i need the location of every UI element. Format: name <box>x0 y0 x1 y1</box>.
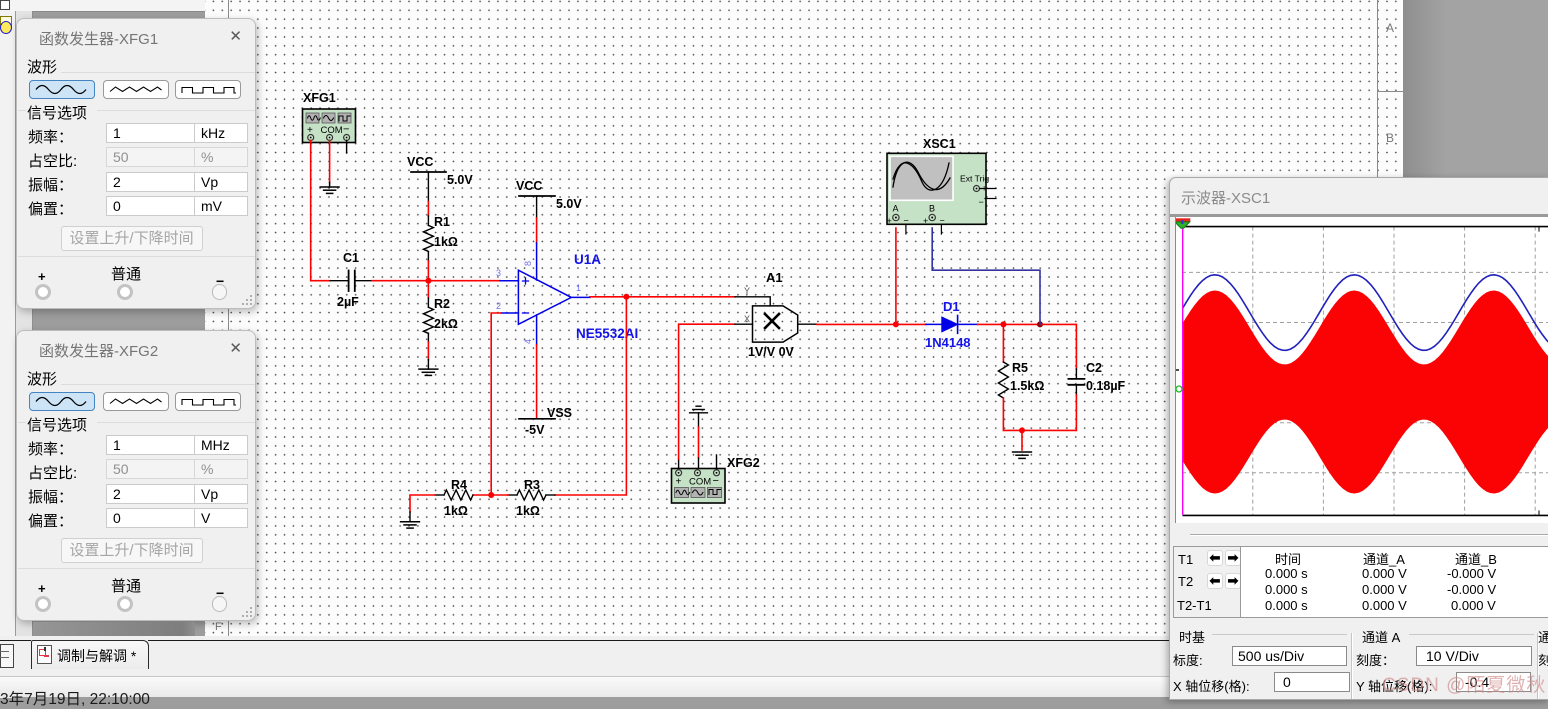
watermark <box>1382 670 1546 697</box>
svg-text:4: 4 <box>523 339 533 344</box>
power VCC1 <box>407 155 473 202</box>
dialogs <box>16 18 256 309</box>
wire node5 to R5 <box>1002 324 1004 362</box>
wire node7 to ground <box>1021 430 1023 450</box>
svg-text:XSC1: XSC1 <box>923 137 956 151</box>
T1 cursor line <box>1182 227 1184 515</box>
oscilloscope symbol XSC1 <box>887 137 997 234</box>
right gray area <box>1403 0 1548 698</box>
bottom controls <box>1351 633 1352 699</box>
svg-text:−: − <box>940 216 945 226</box>
svg-text:D1: D1 <box>943 299 960 314</box>
schematic canvas <box>205 0 1403 636</box>
svg-text:COM: COM <box>321 125 343 136</box>
wire node5 to node6 <box>1003 323 1040 325</box>
grid dashed <box>1182 227 1548 516</box>
wire VCC2 to pin8 <box>536 218 538 280</box>
capacitor C2 <box>1068 361 1125 395</box>
resistor R4 <box>435 478 473 518</box>
capacitor C1 <box>337 251 359 309</box>
wire node2 to multiplier Y <box>626 286 770 306</box>
svg-text:A: A <box>893 204 899 214</box>
svg-text:2µF: 2µF <box>337 295 359 309</box>
svg-text:C2: C2 <box>1086 361 1102 375</box>
svg-text:X: X <box>744 314 750 324</box>
power VSS <box>519 406 572 437</box>
svg-text:1kΩ: 1kΩ <box>516 504 540 518</box>
wire node2 down to R3 <box>555 297 626 495</box>
svg-text:1: 1 <box>576 283 581 293</box>
diode D1 <box>925 299 971 350</box>
svg-text:8: 8 <box>523 261 533 266</box>
wire opamp output to node2 <box>571 296 626 299</box>
cursor readout panel <box>1173 546 1241 618</box>
svg-text:0.18µF: 0.18µF <box>1086 379 1126 393</box>
svg-text:A1: A1 <box>766 270 783 285</box>
wire XFG1 minus stub <box>346 141 348 154</box>
ground GND5 above XFG2 <box>690 406 708 427</box>
left margin markers <box>1171 369 1179 371</box>
svg-text:−: − <box>343 124 349 136</box>
svg-text:XFG2: XFG2 <box>727 456 760 470</box>
svg-text:VSS: VSS <box>547 406 572 420</box>
svg-text:+: + <box>887 216 892 226</box>
svg-text:1kΩ: 1kΩ <box>434 235 458 249</box>
svg-text:Y: Y <box>744 286 750 296</box>
function generator XFG1 <box>303 91 356 143</box>
power VCC2 <box>516 179 582 218</box>
svg-text:R3: R3 <box>524 478 540 492</box>
multiplier A1 <box>748 270 798 359</box>
wire R3 to node3 <box>491 494 508 496</box>
svg-text:NE5532AI: NE5532AI <box>576 326 638 341</box>
plot frame lines <box>1183 226 1548 228</box>
tab bar <box>0 636 1548 677</box>
svg-text:5.0V: 5.0V <box>447 173 473 187</box>
wire ground to XFG2 COM <box>698 427 700 469</box>
svg-text:+: + <box>923 216 928 226</box>
function generator XFG2 (mirrored) <box>672 456 760 503</box>
node3 junction <box>488 492 494 498</box>
node1 junction <box>425 278 431 284</box>
svg-text:R2: R2 <box>434 297 450 311</box>
resistor R1 <box>423 215 458 252</box>
wire XFG1 COM to ground <box>329 141 331 183</box>
wire opamp minus input <box>491 313 518 495</box>
plot area <box>1175 217 1548 523</box>
svg-text:R5: R5 <box>1012 361 1028 375</box>
svg-text:1V/V 0V: 1V/V 0V <box>748 345 795 359</box>
ground GND2 <box>419 369 438 375</box>
resistor R5 <box>998 361 1044 398</box>
separator under plot <box>1190 534 1548 535</box>
wire pin4 to VSS <box>536 315 538 418</box>
resistor R3 <box>508 478 555 518</box>
ground GND3 <box>401 522 420 528</box>
wire R5 C2 bottom <box>1003 395 1076 430</box>
svg-text:2: 2 <box>496 301 501 311</box>
wire R4 to ground <box>410 495 435 521</box>
node2 junction <box>623 294 629 300</box>
wire VCC1 to R1 <box>427 202 429 226</box>
node6 junction scope B tap <box>1037 321 1043 327</box>
svg-text:−: − <box>713 475 719 487</box>
plot panel top edge <box>1170 214 1548 217</box>
sheet border verticals <box>228 0 229 636</box>
resistor R2 <box>423 297 458 333</box>
wire scope B to node6 <box>932 228 1040 324</box>
node4 junction scope A tap <box>893 321 899 327</box>
svg-text:1N4148: 1N4148 <box>925 335 971 350</box>
wire XFG1 plus to C1 <box>311 141 348 281</box>
svg-text:5.0V: 5.0V <box>556 197 582 211</box>
T1 marker <box>1174 218 1190 222</box>
svg-text:U1A: U1A <box>574 252 601 267</box>
svg-text:2kΩ: 2kΩ <box>434 317 458 331</box>
ground GND4 <box>1013 452 1032 458</box>
wire R2 to ground <box>427 333 429 369</box>
blue channel B waveform <box>1183 275 1548 351</box>
svg-text:XFG1: XFG1 <box>303 91 336 105</box>
wire XFG2 plus to multiplier X <box>679 314 753 469</box>
wire scope A to node4 <box>895 228 897 324</box>
svg-text:B: B <box>929 204 935 214</box>
status bar <box>0 676 1548 697</box>
wire node1 to R2 <box>427 281 429 308</box>
wire multiplier out to diode <box>798 323 896 325</box>
red channel A waveform <box>1183 291 1548 494</box>
wire node4 to diode anode <box>896 323 942 325</box>
wire diode cathode to node5 <box>958 323 1004 325</box>
wire node3 to R4 <box>473 494 491 496</box>
wire C1 to node1 <box>356 280 429 282</box>
svg-text:1kΩ: 1kΩ <box>444 504 468 518</box>
svg-text:R4: R4 <box>451 478 467 492</box>
wire XFG2 minus stub <box>716 455 718 469</box>
scope window placeholder <box>1169 177 1548 700</box>
svg-text:COM: COM <box>689 477 711 488</box>
wire node6 to C2 <box>1040 324 1076 369</box>
node7 junction bottom <box>1019 427 1025 433</box>
left panel strip <box>0 0 205 12</box>
wire node1 to opamp plus <box>428 280 518 282</box>
svg-text:-5V: -5V <box>525 423 545 437</box>
node5 junction R5 top <box>1000 321 1006 327</box>
svg-text:VCC: VCC <box>407 155 433 169</box>
ground GND1 <box>320 183 339 194</box>
svg-text:3: 3 <box>496 268 501 278</box>
wire R1 to node1 <box>427 252 429 281</box>
svg-text:C1: C1 <box>343 251 359 265</box>
svg-text:+: + <box>676 477 682 488</box>
svg-text:Ext Trig: Ext Trig <box>960 174 989 184</box>
scrollbar band left of canvas bottom <box>33 622 195 636</box>
svg-text:−: − <box>979 197 984 207</box>
svg-text:1.5kΩ: 1.5kΩ <box>1010 379 1044 393</box>
svg-text:VCC: VCC <box>516 179 542 193</box>
svg-text:R1: R1 <box>434 215 450 229</box>
op-amp U1A <box>496 252 638 344</box>
